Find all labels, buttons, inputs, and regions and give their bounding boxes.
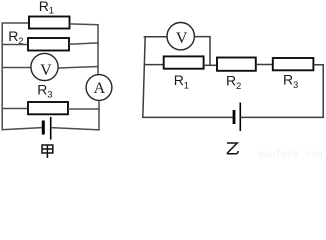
- wire series row: bus to R1: [144, 64, 165, 66]
- wire right vertical top (R1/R2/V node to ammeter): [97, 24, 99, 75]
- wire battery right: [51, 128, 100, 130]
- resistor R3 (right circuit): [273, 58, 314, 70]
- label yi (Chinese character): [227, 143, 238, 154]
- label R2: [8, 28, 23, 47]
- label R1 (right circuit): [174, 72, 189, 91]
- battery (right circuit): long thin plate: [239, 103, 241, 132]
- wire R3 to right bus: [313, 64, 324, 66]
- wire R1 right: [70, 23, 99, 26]
- wire R2 left: [2, 44, 29, 46]
- wire right vertical bottom (ammeter to battery): [98, 100, 100, 130]
- label R1: [39, 0, 54, 17]
- wire battery left (right circuit): [142, 116, 233, 118]
- voltmeter V (left circuit): [31, 53, 58, 80]
- svg-text:R: R: [283, 71, 293, 87]
- svg-text:R: R: [226, 72, 236, 88]
- label R3: [37, 82, 52, 101]
- svg-text:3: 3: [47, 90, 52, 101]
- voltmeter V (right circuit): [167, 23, 194, 50]
- label R3 (right circuit): [283, 71, 298, 90]
- wire V right: [58, 67, 99, 69]
- svg-text:1: 1: [184, 80, 189, 91]
- wire left vertical bus (right circuit): [143, 36, 145, 118]
- wire R1 left: [2, 22, 30, 24]
- resistor R1 (right circuit): [164, 56, 204, 68]
- svg-text:2: 2: [236, 81, 241, 92]
- battery (left circuit): short thick negative plate: [42, 121, 45, 135]
- svg-text:A: A: [94, 80, 106, 97]
- wire battery right (right circuit): [241, 116, 325, 118]
- svg-text:3: 3: [293, 80, 298, 91]
- svg-text:1: 1: [49, 6, 54, 17]
- label R2 (right circuit): [226, 72, 241, 91]
- svg-text:R: R: [8, 28, 18, 44]
- svg-text:R: R: [39, 0, 49, 14]
- wire V right (right circuit): [194, 36, 210, 38]
- wire V drop to R1-R2 node: [209, 37, 211, 66]
- wire R3 right: [68, 108, 100, 110]
- wire R3 left: [2, 108, 29, 110]
- resistor R2 (right circuit): [217, 58, 256, 71]
- svg-text:V: V: [176, 30, 188, 47]
- wire R1 to R2: [204, 64, 218, 66]
- ammeter A: [86, 75, 112, 101]
- wire left vertical bus: [1, 23, 3, 130]
- wire battery left: [2, 128, 43, 130]
- resistor R1: [29, 17, 70, 29]
- svg-text:R: R: [174, 72, 184, 88]
- svg-text:2: 2: [18, 36, 23, 47]
- svg-text:manfen5.com: manfen5.com: [258, 149, 323, 159]
- wire right vertical bus (right circuit): [322, 65, 324, 118]
- label jia (Chinese character): [42, 145, 53, 158]
- resistor R2: [28, 38, 69, 51]
- wire V left (right circuit): [144, 36, 168, 38]
- svg-text:V: V: [40, 62, 52, 79]
- resistor R3: [28, 102, 68, 114]
- wire R2 right: [69, 43, 99, 44]
- battery (left circuit): long thin positive plate: [50, 117, 52, 140]
- svg-text:R: R: [37, 82, 47, 98]
- wire V left: [2, 67, 32, 69]
- wire R2 to R3: [256, 64, 273, 66]
- battery (right circuit): short thick plate: [233, 110, 236, 124]
